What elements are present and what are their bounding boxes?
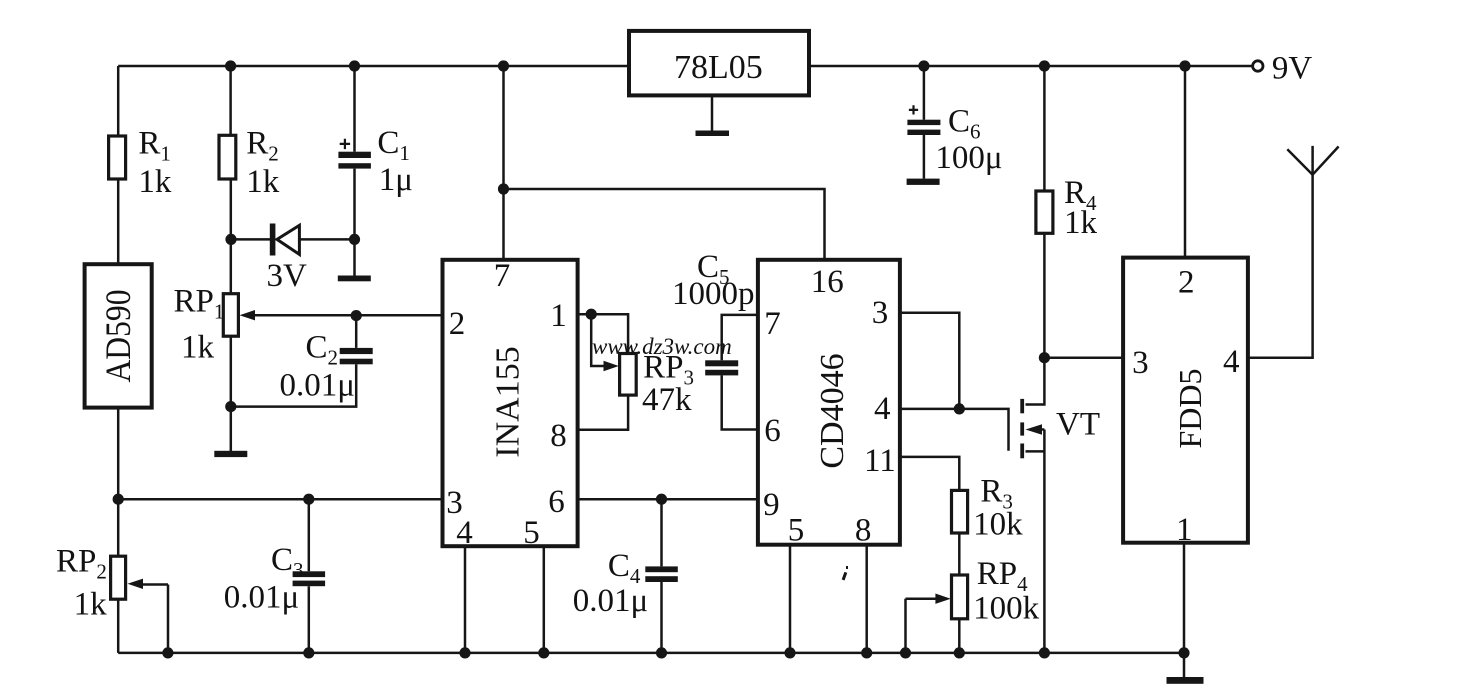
svg-text:1μ: 1μ [379, 162, 413, 198]
svg-text:INA155: INA155 [490, 346, 527, 457]
svg-text:1k: 1k [246, 164, 280, 200]
svg-text:0.01μ: 0.01μ [573, 583, 648, 619]
svg-text:5: 5 [523, 515, 540, 551]
svg-text:C6: C6 [948, 104, 981, 144]
svg-text:3: 3 [872, 295, 889, 331]
svg-text:AD590: AD590 [98, 290, 138, 383]
svg-text:10k: 10k [973, 507, 1023, 543]
svg-text:1k: 1k [74, 587, 108, 623]
svg-text:2: 2 [449, 306, 466, 342]
svg-text:78L05: 78L05 [674, 49, 763, 86]
svg-text:4: 4 [1223, 344, 1240, 380]
svg-text:VT: VT [1056, 407, 1100, 443]
svg-text:8: 8 [550, 418, 567, 454]
svg-text:8: 8 [855, 513, 872, 549]
svg-text:C3: C3 [271, 542, 304, 582]
svg-text:R1: R1 [138, 126, 171, 166]
svg-text:6: 6 [548, 484, 565, 520]
svg-text:C4: C4 [608, 548, 641, 588]
svg-text:RP2: RP2 [56, 544, 107, 584]
svg-text:1: 1 [550, 298, 567, 334]
svg-text:6: 6 [764, 413, 781, 449]
svg-text:0.01μ: 0.01μ [280, 368, 355, 404]
svg-text:3V: 3V [267, 258, 308, 294]
svg-text:RP1: RP1 [174, 284, 225, 324]
svg-text:5: 5 [788, 513, 805, 549]
svg-text:1000p: 1000p [672, 276, 755, 312]
svg-text:1k: 1k [1064, 205, 1098, 241]
svg-text:9V: 9V [1272, 51, 1313, 87]
svg-text:4: 4 [874, 391, 891, 427]
svg-text:11: 11 [864, 443, 896, 479]
svg-text:16: 16 [811, 264, 844, 300]
svg-text:C2: C2 [306, 330, 339, 370]
svg-text:1k: 1k [138, 164, 172, 200]
svg-text:1k: 1k [181, 330, 215, 366]
svg-text:CD4046: CD4046 [814, 353, 851, 468]
svg-text:9: 9 [763, 487, 780, 523]
svg-text:100k: 100k [973, 591, 1040, 627]
svg-text:1: 1 [1176, 512, 1193, 548]
svg-text:3: 3 [1132, 345, 1149, 381]
svg-text:C1: C1 [377, 125, 410, 165]
svg-text:47k: 47k [642, 382, 692, 418]
svg-text:R2: R2 [246, 126, 279, 166]
svg-text:www.dz3w.com: www.dz3w.com [592, 334, 732, 359]
svg-text:4: 4 [456, 515, 473, 551]
svg-text:FDD5: FDD5 [1172, 368, 1208, 448]
svg-text:2: 2 [1178, 265, 1195, 301]
svg-text:0.01μ: 0.01μ [224, 580, 299, 616]
svg-text:7: 7 [494, 258, 511, 294]
svg-text:100μ: 100μ [935, 140, 1002, 176]
svg-text:7: 7 [764, 306, 781, 342]
